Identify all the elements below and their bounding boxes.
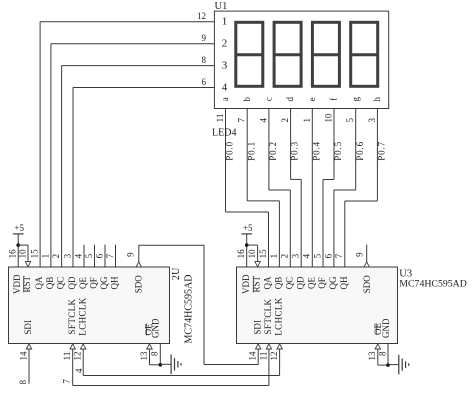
U3 SFTCLK input arrow [266, 344, 271, 349]
svg-text:16: 16 [7, 249, 17, 259]
wire P0.3 vertical from display [290, 109, 292, 180]
wire U1 pin 3 horizontal (net 8) [62, 65, 215, 67]
svg-text:MC74HC595AD: MC74HC595AD [184, 275, 195, 344]
svg-text:d: d [285, 96, 295, 101]
wire P0.5 vertical to U3 [322, 180, 324, 268]
svg-text:11: 11 [62, 352, 72, 361]
wire P0.6 vertical to U3 [333, 190, 335, 267]
svg-text:1: 1 [222, 16, 228, 28]
wire P0.0 jog [226, 211, 269, 213]
svg-text:2: 2 [171, 275, 182, 280]
bus net 7 horizontal [73, 385, 269, 387]
svg-text:QA: QA [34, 276, 44, 289]
svg-text:P0.4: P0.4 [311, 141, 321, 161]
7-seg digit 2 outline [274, 22, 301, 86]
wire U1 pin 1 horizontal (net 12) [40, 21, 214, 23]
svg-text:QD: QD [67, 276, 77, 289]
svg-text:4: 4 [222, 81, 228, 93]
svg-text:2: 2 [51, 254, 61, 259]
svg-text:6: 6 [94, 253, 104, 258]
wire P0.1 vertical from display [246, 109, 248, 201]
wire +5 to U3 RST hook [247, 244, 258, 246]
U2 SDI input arrow [26, 344, 31, 349]
wire down to U2 RST pin10 [27, 245, 29, 266]
wire +5 to U3 VDD pin16 [246, 234, 248, 267]
svg-text:c: c [263, 97, 273, 101]
wire P0.5 jog [323, 179, 334, 181]
wire P0.2 vertical from display [268, 109, 270, 191]
svg-text:2: 2 [280, 254, 290, 259]
svg-text:GND: GND [381, 318, 391, 338]
4-digit 7-segment display U1 body [214, 11, 388, 108]
U2 OE input arrow [147, 344, 152, 349]
wire P0.3 vertical to U3 [300, 179, 302, 267]
wire vertical net 9 down to U2 [50, 44, 52, 267]
7-seg digit 1 outline [236, 22, 263, 86]
wire P0.6 jog [334, 189, 356, 191]
svg-text:9: 9 [355, 252, 365, 257]
svg-text:4: 4 [302, 253, 312, 258]
svg-text:QE: QE [78, 277, 88, 289]
wire U2 SFTCLK down [72, 349, 74, 386]
svg-text:1: 1 [40, 254, 50, 259]
svg-text:5: 5 [84, 253, 94, 258]
U2 SDO output arrow [136, 262, 141, 267]
wire U2 OE to gnd junction [150, 364, 161, 366]
svg-text:2: 2 [222, 38, 228, 50]
svg-text:+5: +5 [243, 223, 253, 233]
wire U2 SDO down [203, 245, 205, 364]
U2 RST overline [23, 276, 25, 292]
wire +5 to U2 VDD pin16 [17, 234, 19, 267]
svg-text:QH: QH [110, 276, 120, 289]
U2 OE overline [145, 324, 147, 336]
wire U2 SDO up [138, 245, 140, 262]
U2 SFTCLK input arrow [70, 344, 75, 349]
7-seg digit 2 middle bar [274, 53, 301, 56]
svg-text:QF: QF [317, 277, 327, 289]
svg-text:GND: GND [151, 318, 161, 338]
svg-text:SFTCLK: SFTCLK [263, 298, 273, 334]
svg-text:MC74HC595AD: MC74HC595AD [399, 278, 467, 289]
svg-text:8: 8 [150, 351, 160, 356]
svg-text:U: U [171, 267, 182, 275]
junction U3 ground [386, 363, 390, 367]
U3 SDO output arrow [364, 262, 369, 267]
svg-text:7: 7 [237, 118, 247, 123]
wire P0.3 jog [291, 178, 302, 180]
svg-text:13: 13 [367, 351, 377, 361]
svg-text:SDO: SDO [134, 275, 144, 294]
svg-text:12: 12 [269, 352, 279, 361]
wire P0.2 jog [269, 189, 290, 191]
U2 LCHCLK input arrow [81, 344, 86, 349]
7-seg digit 3 middle bar [312, 53, 339, 56]
svg-text:e: e [307, 97, 317, 101]
svg-text:6: 6 [202, 77, 207, 87]
svg-text:16: 16 [236, 249, 246, 259]
svg-text:2: 2 [280, 118, 290, 123]
svg-text:13: 13 [139, 351, 149, 361]
svg-text:11: 11 [258, 352, 268, 361]
bus net 4 horizontal [83, 375, 279, 377]
shift register U2 body [9, 267, 170, 344]
svg-text:SFTCLK: SFTCLK [67, 298, 77, 334]
svg-text:8: 8 [18, 379, 28, 384]
U2 unused output stub x=105.0 [104, 245, 106, 267]
wire vertical net 6 down to U2 [72, 88, 74, 268]
U2 designator [171, 267, 182, 280]
svg-text:3: 3 [62, 253, 72, 258]
svg-text:b: b [242, 96, 252, 101]
wire P0.1 vertical to U3 [278, 201, 280, 267]
svg-text:a: a [220, 97, 230, 101]
svg-text:7: 7 [334, 253, 344, 258]
svg-text:VDD: VDD [241, 274, 251, 294]
svg-text:QC: QC [284, 277, 294, 290]
svg-text:11: 11 [215, 114, 225, 123]
wire vertical net 8 down to U2 [61, 66, 63, 267]
wire U3 SDO stub up [366, 245, 368, 262]
wire U1 pin 4 horizontal (net 6) [73, 87, 214, 89]
U2 unused output stub x=94.5 [94, 245, 96, 267]
svg-text:8: 8 [202, 55, 207, 65]
wire P0.7 vertical from display [376, 109, 378, 202]
+5 power symbol (U2) [13, 223, 25, 234]
ground symbol (U3) [388, 355, 409, 375]
svg-text:P0.5: P0.5 [333, 141, 343, 161]
wire vertical net 12 down to U2 [39, 22, 41, 267]
svg-text:QD: QD [295, 276, 305, 289]
svg-text:f: f [329, 98, 339, 101]
wire U2 SDO right [139, 244, 204, 246]
wire U2 LCHCLK down [82, 349, 84, 376]
U2 unused output stub x=84.0 [83, 245, 85, 267]
7-seg digit 1 middle bar [236, 53, 263, 56]
junction +5/RST (U2) [16, 243, 20, 247]
svg-text:7: 7 [61, 379, 71, 384]
svg-text:10: 10 [323, 113, 333, 123]
shift register U3 body [237, 267, 398, 344]
junction +5/RST (U3) [245, 243, 249, 247]
svg-text:4: 4 [74, 368, 84, 373]
svg-text:8: 8 [377, 351, 387, 356]
svg-text:5: 5 [345, 118, 355, 123]
svg-text:LCHCLK: LCHCLK [77, 297, 87, 336]
svg-text:4: 4 [73, 253, 83, 258]
svg-text:P0.1: P0.1 [246, 141, 256, 161]
wire P0.0 vertical to U3 [268, 212, 270, 267]
svg-text:1: 1 [302, 118, 312, 123]
svg-text:12: 12 [197, 11, 206, 21]
wire U2 OE down [149, 349, 151, 365]
svg-text:7: 7 [105, 253, 115, 258]
wire down to U3 RST pin10 [257, 245, 259, 266]
wire +5 to U2 RST hook [18, 244, 28, 246]
svg-text:P0.7: P0.7 [376, 141, 386, 161]
svg-text:3: 3 [367, 118, 377, 123]
svg-text:1: 1 [269, 254, 279, 259]
svg-text:P0.3: P0.3 [290, 141, 300, 161]
wire P0.1 jog [247, 200, 279, 202]
svg-text:10: 10 [247, 249, 257, 259]
wire P0.5 vertical from display [333, 109, 335, 180]
wire U2 GND down [159, 344, 161, 365]
wire U2 SDI stub down [28, 349, 30, 384]
svg-text:P0.0: P0.0 [225, 141, 235, 161]
wire up into U3 SDI pin14 [257, 349, 259, 365]
U3 LCHCLK input arrow [277, 344, 282, 349]
+5 power symbol (U3) [241, 223, 253, 234]
svg-text:QG: QG [99, 276, 109, 289]
svg-text:10: 10 [17, 249, 27, 259]
svg-text:5: 5 [312, 253, 322, 258]
svg-text:QH: QH [339, 276, 349, 289]
svg-text:4: 4 [258, 118, 268, 123]
wire U3 OE to gnd junction [378, 364, 388, 366]
svg-text:g: g [350, 96, 360, 101]
wire U3 GND down [387, 344, 389, 366]
svg-text:3: 3 [222, 59, 228, 71]
svg-text:15: 15 [29, 249, 39, 259]
svg-text:LED4: LED4 [212, 128, 236, 139]
svg-text:SDI: SDI [23, 320, 33, 335]
wire P0.2 vertical to U3 [289, 190, 291, 267]
U3 OE input arrow [375, 344, 380, 349]
wire P0.7 jog [345, 200, 378, 202]
wire up to U3 SFTCLK [268, 349, 270, 386]
svg-text:15: 15 [258, 249, 268, 259]
ground symbol (U2) [160, 355, 181, 375]
svg-text:P0.2: P0.2 [268, 141, 278, 161]
svg-text:SDI: SDI [252, 320, 262, 335]
svg-text:SDO: SDO [362, 275, 372, 294]
wire P0.6 vertical from display [355, 109, 357, 191]
wire up to U3 LCHCLK [279, 349, 281, 376]
U3 SDI input arrow [256, 344, 261, 349]
wire P0.0 vertical from display [225, 109, 227, 213]
wire U2 SDO to U3 SDI [204, 364, 258, 366]
svg-text:QC: QC [56, 277, 66, 290]
svg-text:LCHCLK: LCHCLK [274, 297, 284, 336]
U2 unused output stub x=115.5 [115, 245, 117, 267]
7-seg digit 3 outline [312, 22, 339, 86]
svg-text:14: 14 [18, 351, 28, 361]
7-seg digit 4 outline [351, 22, 378, 86]
wire U3 OE down [377, 349, 379, 366]
svg-text:QA: QA [263, 276, 273, 289]
svg-text:QG: QG [328, 276, 338, 289]
svg-text:3: 3 [291, 253, 301, 258]
U3 RST input arrow [255, 262, 260, 267]
U2 RST input arrow [25, 262, 30, 267]
svg-text:h: h [372, 96, 382, 101]
wire P0.4 straight [311, 109, 313, 268]
svg-text:12: 12 [73, 352, 83, 361]
svg-text:+5: +5 [14, 223, 24, 233]
svg-text:6: 6 [323, 253, 333, 258]
svg-text:QB: QB [273, 277, 283, 290]
U3 RST overline [252, 276, 254, 292]
svg-text:14: 14 [248, 351, 258, 361]
svg-text:P0.6: P0.6 [355, 141, 365, 161]
svg-text:U1: U1 [215, 1, 228, 12]
svg-text:VDD: VDD [12, 274, 22, 294]
7-seg digit 4 middle bar [351, 53, 378, 56]
svg-text:9: 9 [202, 33, 207, 43]
svg-text:QE: QE [306, 277, 316, 289]
wire P0.7 vertical to U3 [344, 201, 346, 267]
svg-text:QB: QB [45, 277, 55, 290]
svg-text:QF: QF [89, 277, 99, 289]
U3 OE overline [375, 323, 377, 335]
junction U2 ground [159, 363, 163, 367]
svg-text:9: 9 [126, 252, 136, 257]
wire U1 pin 2 horizontal (net 9) [51, 43, 215, 45]
